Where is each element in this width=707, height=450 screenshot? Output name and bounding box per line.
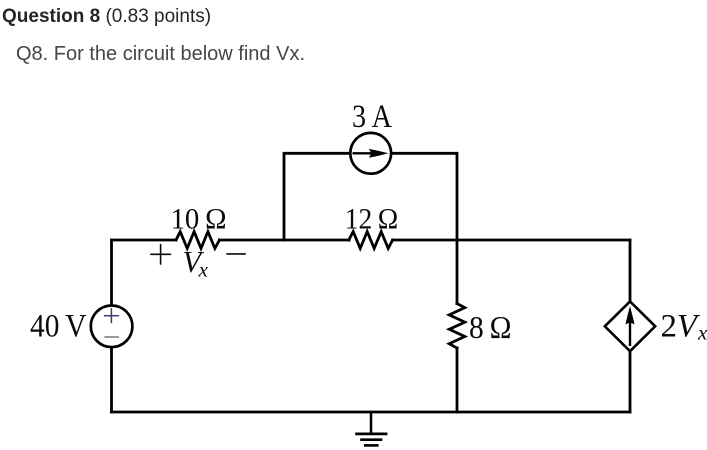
wire middle center <box>219 239 349 242</box>
svg-text:40 V: 40 V <box>30 309 87 345</box>
label Vx polarity minus <box>227 253 245 255</box>
svg-text:12 Ω: 12 Ω <box>345 202 399 235</box>
wire left vertical top <box>110 240 113 305</box>
svg-text:Vx: Vx <box>183 245 209 282</box>
wire right vertical bottom <box>629 351 632 412</box>
resistor R3 8ohm zigzag vertical <box>449 304 465 349</box>
svg-text:10 Ω: 10 Ω <box>171 202 227 235</box>
wire right vertical top <box>629 240 632 302</box>
wire middle right <box>393 239 630 242</box>
svg-text:2Vx: 2Vx <box>661 309 707 345</box>
svg-text:3 A: 3 A <box>352 99 392 135</box>
voltage source V1 plus sign <box>105 309 119 323</box>
voltage source V1 minus sign <box>105 336 118 338</box>
current source I1 arrow <box>354 149 389 158</box>
wire middle left <box>112 239 177 242</box>
label Vx polarity plus <box>151 245 170 264</box>
wire bottom <box>112 411 631 414</box>
wire left vertical bottom <box>110 348 113 413</box>
ground <box>357 412 386 445</box>
dependent source 2Vx arrow <box>626 306 635 345</box>
wire 8ohm branch lower <box>456 348 459 412</box>
wire top loop left <box>284 153 350 240</box>
resistor R2 12ohm zigzag <box>349 232 393 249</box>
dependent source 2Vx diamond <box>605 301 655 351</box>
question header <box>2 6 211 28</box>
voltage source V1 40V circle <box>91 306 133 348</box>
svg-text:8 Ω: 8 Ω <box>469 309 512 345</box>
resistor R1 10ohm zigzag <box>176 232 219 249</box>
question prompt <box>16 43 305 66</box>
current source I1 3A circle <box>350 133 391 174</box>
wire 8ohm branch upper <box>456 240 459 304</box>
wire top loop right <box>392 153 458 240</box>
